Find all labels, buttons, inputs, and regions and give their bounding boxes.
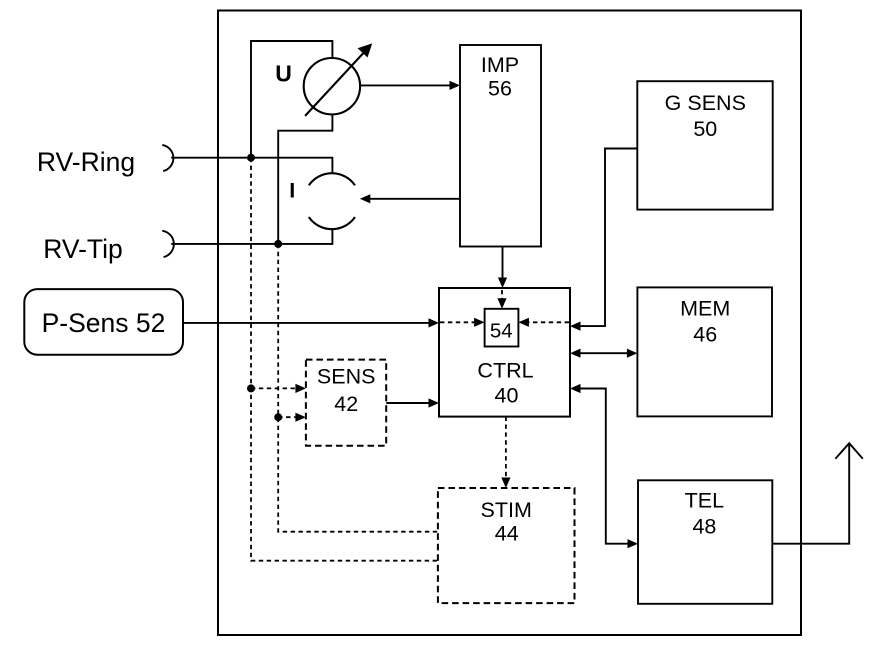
wire IMP to CTRL with arrow bbox=[502, 247, 504, 279]
svg-text:MEM: MEM bbox=[680, 297, 730, 321]
block TEL 48 bbox=[638, 480, 772, 604]
voltmeter needle arrow bbox=[305, 50, 366, 116]
svg-text:TEL: TEL bbox=[685, 489, 724, 513]
junction dot on ring sense wire bbox=[247, 384, 255, 392]
wire U-meter to IMP with arrow bbox=[360, 84, 450, 86]
junction dot RV-Ring / U-meter bbox=[247, 154, 255, 162]
antenna open arrowhead bbox=[835, 443, 862, 459]
wire G SENS to CTRL with arrow bbox=[580, 149, 637, 327]
voltmeter U loop wire (lower step) bbox=[278, 115, 332, 244]
svg-text:G SENS: G SENS bbox=[665, 91, 746, 115]
dashed arrow CTRL top edge into 54 bbox=[501, 290, 503, 300]
svg-text:56: 56 bbox=[488, 76, 512, 100]
dashed arrow CTRL to STIM bbox=[505, 417, 507, 479]
wire SENS to CTRL with arrow bbox=[386, 402, 430, 404]
RV-Tip connector arc bbox=[162, 231, 174, 257]
block CTRL 40 bbox=[439, 288, 570, 417]
svg-text:IMP: IMP bbox=[481, 53, 519, 77]
block G SENS 50 bbox=[637, 81, 772, 209]
wire TEL to antenna bbox=[772, 444, 849, 544]
RV-Tip wire bbox=[171, 230, 332, 244]
ammeter I top arc bbox=[309, 173, 355, 185]
svg-text:STIM: STIM bbox=[481, 498, 532, 522]
junction dot on tip sense wire bbox=[274, 413, 282, 421]
svg-text:RV-Ring: RV-Ring bbox=[37, 147, 135, 177]
P-Sens 52 block bbox=[24, 289, 183, 355]
block SENS 42 (dashed) bbox=[306, 360, 386, 446]
block STIM 44 (dashed) bbox=[438, 488, 575, 603]
svg-text:46: 46 bbox=[693, 322, 717, 346]
wire TEL to CTRL double arrow (L-shaped) bbox=[579, 389, 629, 544]
svg-text:CTRL: CTRL bbox=[477, 358, 533, 382]
dashed arrow CTRL right edge into 54 bbox=[528, 321, 570, 323]
svg-text:50: 50 bbox=[693, 117, 717, 141]
block IMP 56 bbox=[460, 45, 541, 247]
wire CTRL-MEM double arrow bbox=[579, 352, 628, 354]
svg-text:SENS: SENS bbox=[317, 365, 376, 389]
svg-text:P-Sens 52: P-Sens 52 bbox=[42, 308, 166, 338]
svg-text:I: I bbox=[289, 178, 295, 202]
svg-text:RV-Tip: RV-Tip bbox=[43, 234, 123, 264]
svg-text:48: 48 bbox=[692, 515, 716, 539]
svg-text:40: 40 bbox=[495, 383, 519, 407]
dashed sense wire from RV-Tip junction down to STIM bbox=[278, 244, 438, 532]
svg-text:U: U bbox=[275, 61, 292, 87]
voltmeter U circle bbox=[304, 58, 360, 114]
dashed sense wire from RV-Ring junction down to STIM bbox=[251, 158, 438, 561]
dashed arrow CTRL left edge into 54 bbox=[440, 321, 476, 323]
junction dot RV-Tip / U-meter bbox=[274, 240, 282, 248]
wire P-Sens to CTRL with arrow bbox=[183, 322, 430, 324]
ammeter I bottom arc bbox=[309, 217, 355, 229]
svg-text:44: 44 bbox=[495, 522, 519, 546]
block MEM 46 bbox=[637, 287, 772, 416]
wire IMP to I-meter with arrow bbox=[370, 198, 461, 200]
block 54 (inside CTRL) bbox=[485, 309, 519, 347]
svg-text:54: 54 bbox=[490, 320, 513, 343]
outer device box bbox=[218, 11, 801, 636]
RV-Ring wire bbox=[171, 158, 332, 173]
dashed arrow ring sense to SENS bbox=[251, 387, 298, 389]
voltmeter U loop wire (upper) bbox=[251, 41, 332, 158]
svg-text:42: 42 bbox=[334, 392, 358, 416]
RV-Ring connector arc bbox=[162, 145, 173, 171]
dashed arrow tip sense to SENS bbox=[278, 416, 297, 418]
